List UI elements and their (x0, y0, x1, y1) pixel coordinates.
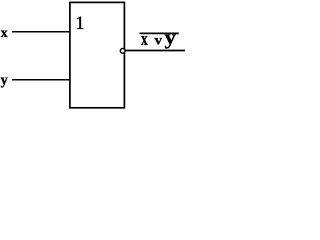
svg-text:v: v (155, 33, 163, 48)
svg-text:y: y (1, 73, 8, 89)
svg-text:x: x (141, 28, 148, 50)
svg-text:1: 1 (75, 13, 84, 34)
svg-text:y: y (165, 27, 177, 49)
svg-text:x: x (1, 25, 8, 40)
